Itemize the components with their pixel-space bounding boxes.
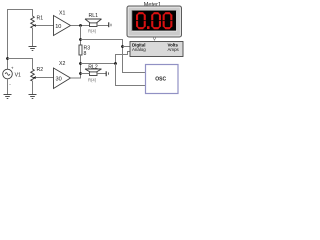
wire left rail to V1 bbox=[7, 59, 9, 70]
ground under R1 bbox=[29, 47, 37, 51]
meter mode panel bbox=[130, 42, 183, 57]
terminal bar RL1 bbox=[108, 22, 110, 27]
wire top-left loop bbox=[8, 10, 33, 59]
wire down to OSC lower input bbox=[116, 64, 146, 86]
wire R1 bottom bbox=[32, 28, 34, 46]
terminal bar RL2 bbox=[105, 71, 107, 76]
terminal tick RL2 bbox=[108, 72, 110, 74]
wire V1 plus rail to R2 bbox=[8, 59, 33, 70]
relay RL2 bbox=[85, 64, 102, 82]
svg-text:+: + bbox=[11, 66, 14, 71]
svg-text:V1: V1 bbox=[15, 72, 21, 78]
meter bezel bbox=[127, 6, 182, 37]
svg-text:R2: R2 bbox=[37, 67, 44, 73]
wire R2 tap to X2 bbox=[36, 77, 54, 79]
resistor R1 (potentiometer) bbox=[31, 16, 35, 28]
wire X1 output bbox=[71, 25, 90, 27]
wiper arrow R2 bbox=[33, 76, 36, 79]
resistor R2 (potentiometer) bbox=[31, 69, 35, 81]
wire R2 bottom bbox=[32, 81, 34, 95]
wiper arrow R1 bbox=[33, 24, 36, 27]
wire panel bottom terminal jog bbox=[116, 52, 131, 64]
resistor R3 bbox=[79, 45, 90, 57]
svg-text:10: 10 bbox=[55, 24, 61, 30]
voltage source V1 bbox=[3, 66, 21, 88]
digit 2 bbox=[151, 12, 161, 29]
meter display bbox=[132, 11, 177, 32]
decimal point bbox=[147, 26, 150, 29]
svg-text:Analog: Analog bbox=[132, 47, 146, 52]
svg-text:R(4): R(4) bbox=[88, 78, 97, 83]
node R3 top junction bbox=[79, 38, 82, 41]
wire RL2 left lead bbox=[81, 73, 90, 75]
op-amp X1 bbox=[54, 11, 71, 36]
oscilloscope OSC box bbox=[146, 65, 179, 94]
node row2 top junction bbox=[79, 62, 82, 65]
svg-text:X1: X1 bbox=[59, 11, 65, 17]
wire junction down to R3 bbox=[80, 26, 82, 46]
svg-text:RL1: RL1 bbox=[89, 13, 99, 19]
wire RL1 right lead bbox=[97, 25, 109, 27]
svg-text:8: 8 bbox=[84, 51, 87, 57]
svg-text:R(4): R(4) bbox=[88, 29, 97, 34]
node row2 right junction bbox=[114, 62, 117, 65]
node X1 output junction bbox=[79, 24, 82, 27]
node V1 top junction bbox=[6, 57, 9, 60]
op-amp X2 bbox=[54, 61, 71, 88]
wire RL2 right lead bbox=[97, 73, 106, 75]
relay RL1 bbox=[85, 13, 102, 34]
wire X2 output up bbox=[71, 64, 81, 79]
svg-text:30: 30 bbox=[56, 77, 62, 83]
svg-text:OSC: OSC bbox=[155, 77, 166, 83]
wire row2 top to meter column bbox=[81, 63, 116, 65]
wire R3 bottom to row2 node bbox=[80, 55, 82, 64]
wire R1 tap to X1 bbox=[36, 25, 54, 27]
node RL2 branch bbox=[79, 72, 82, 75]
terminal tick RL1 bbox=[110, 24, 112, 26]
wire V1 bottom bbox=[7, 79, 9, 95]
svg-text:V: V bbox=[153, 36, 156, 41]
digit 3 bbox=[163, 12, 173, 29]
svg-text:Amps: Amps bbox=[168, 47, 180, 52]
wire meter junction to panel top terminal bbox=[123, 46, 131, 48]
svg-text:R1: R1 bbox=[37, 16, 44, 22]
ground under V1 bbox=[4, 95, 12, 99]
digit 1 bbox=[136, 12, 146, 29]
wire R3 node to meter column and OSC upper input bbox=[81, 40, 146, 73]
svg-text:X2: X2 bbox=[59, 61, 65, 67]
ground under R2 bbox=[29, 95, 37, 99]
node meter junction bbox=[121, 45, 124, 48]
